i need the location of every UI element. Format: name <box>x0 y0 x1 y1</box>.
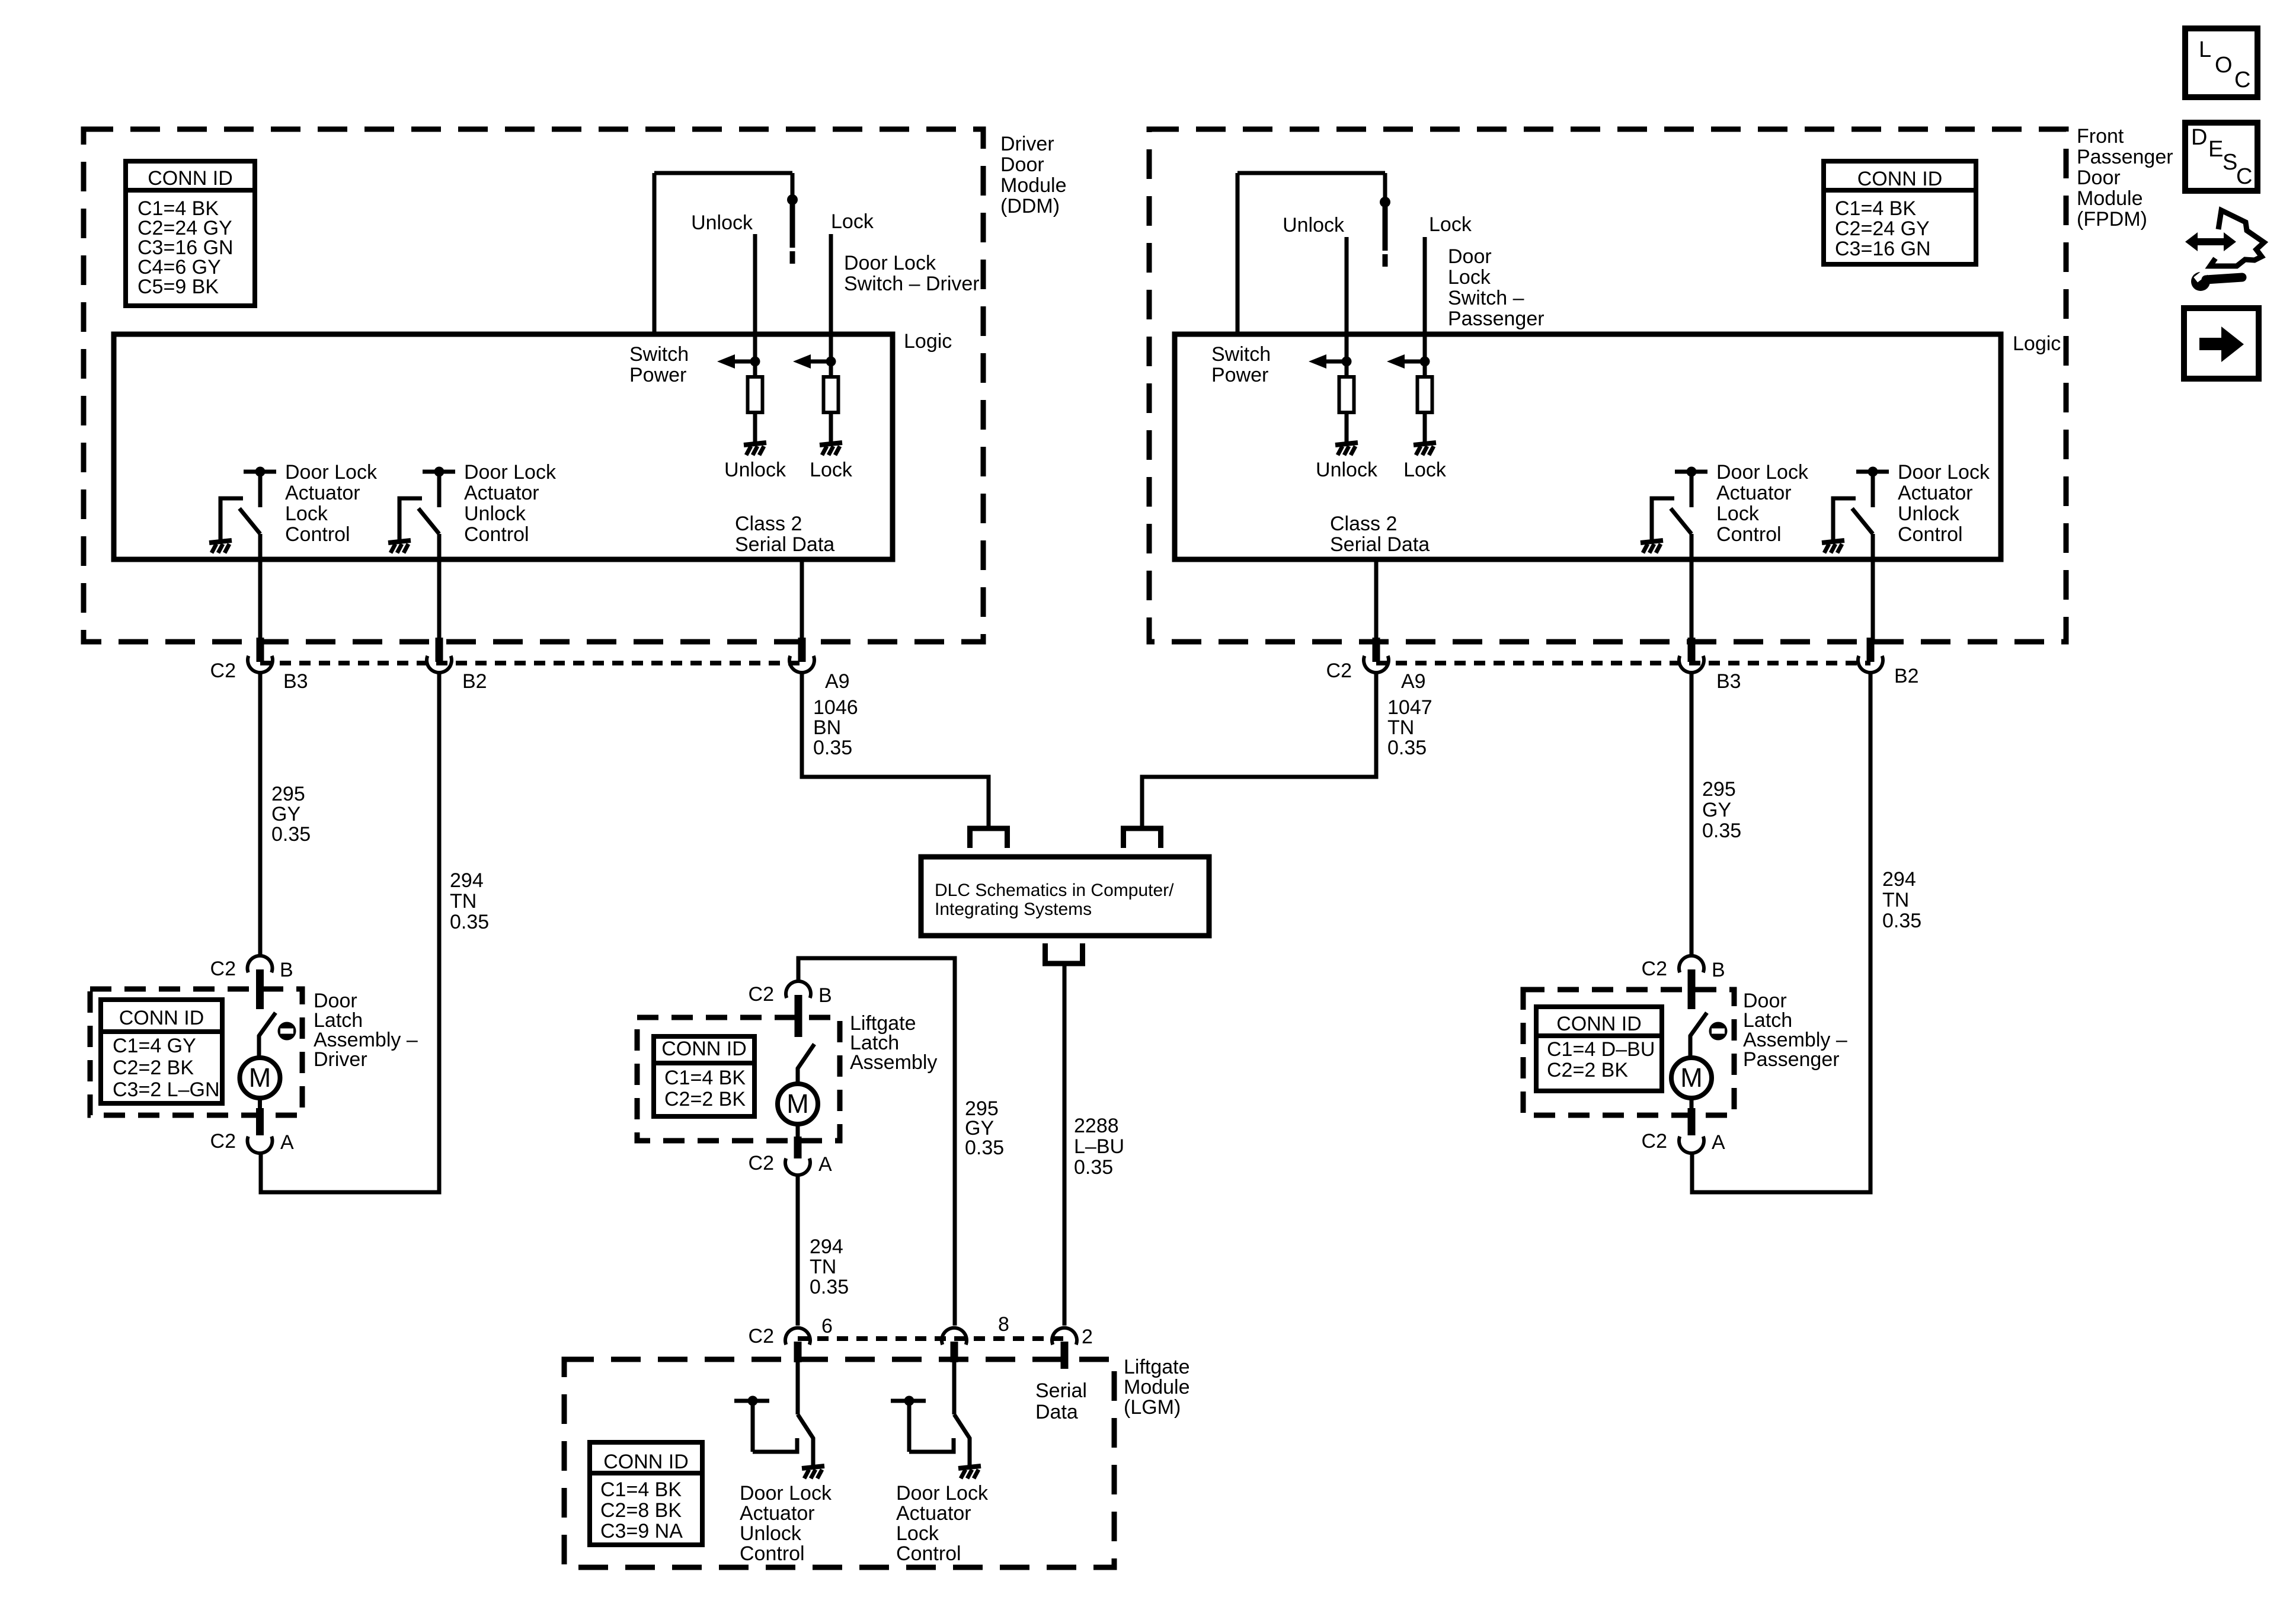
wire 1047 TN (FPDM A9 to DLC) <box>1142 673 1376 828</box>
arrow switch power lock (FPDM) <box>1387 354 1430 369</box>
label DLC Schematics in Computer/Integrating Systems <box>935 881 1174 919</box>
svg-text:CONN ID: CONN ID <box>603 1451 689 1473</box>
pin A9 (FPDM C2) <box>1373 638 1380 662</box>
module box Door Latch Assembly - Driver <box>90 989 302 1115</box>
icon wrench/diagnostic <box>2185 210 2264 291</box>
svg-text:C2: C2 <box>749 983 774 1006</box>
svg-text:Control: Control <box>464 523 529 546</box>
label wire 294 TN 0.35 (passenger) <box>1882 868 1921 932</box>
pin B2 (DDM C2) <box>436 638 443 662</box>
svg-text:E: E <box>2208 137 2223 162</box>
svg-text:D: D <box>2191 125 2207 150</box>
svg-text:Actuator: Actuator <box>1716 482 1792 504</box>
wire 2288 L-BU (DLC to LGM pin 2) <box>1063 966 1067 1326</box>
svg-text:TN: TN <box>1387 716 1414 739</box>
svg-text:Control: Control <box>1898 523 1963 546</box>
svg-text:A: A <box>1712 1131 1725 1154</box>
svg-text:B: B <box>818 984 832 1007</box>
switch blade (driver latch) <box>259 1013 276 1059</box>
svg-text:Power: Power <box>1211 364 1268 386</box>
svg-text:CONN ID: CONN ID <box>661 1038 747 1060</box>
connector cup B2 (FPDM C2) <box>1858 656 1883 673</box>
svg-text:B3: B3 <box>283 670 308 693</box>
svg-text:GY: GY <box>1702 799 1731 821</box>
svg-text:(DDM): (DDM) <box>1000 195 1060 217</box>
svg-text:Door Lock: Door Lock <box>464 461 557 484</box>
svg-text:Unlock: Unlock <box>740 1522 802 1545</box>
label Switch Power (FPDM) <box>1211 343 1271 386</box>
svg-text:C2: C2 <box>1642 958 1667 980</box>
connector C2 B (driver latch) <box>248 956 273 972</box>
connector cup A9 (FPDM C2) <box>1364 656 1389 673</box>
svg-text:0.35: 0.35 <box>271 823 311 846</box>
label wire 294 TN 0.35 (driver) <box>450 869 489 933</box>
svg-text:B: B <box>280 959 293 981</box>
svg-text:Integrating Systems: Integrating Systems <box>935 900 1092 919</box>
svg-text:C5=9 BK: C5=9 BK <box>137 276 219 298</box>
svg-text:Serial Data: Serial Data <box>1330 533 1430 556</box>
svg-text:Lock: Lock <box>896 1522 939 1545</box>
label wire 2288 L-BU 0.35 <box>1074 1115 1124 1179</box>
resistor lock pull-down (FPDM) <box>1418 377 1432 412</box>
svg-text:C1=4 BK: C1=4 BK <box>664 1067 746 1089</box>
ground <box>388 540 411 553</box>
wire to unlock resistor (FPDM) <box>1345 361 1349 375</box>
logic box FPDM <box>1175 334 2001 559</box>
switch blade (passenger latch) <box>1690 1013 1707 1059</box>
svg-text:Actuator: Actuator <box>896 1502 971 1525</box>
svg-text:Lock: Lock <box>1403 459 1447 481</box>
wire motor to pin (passenger latch) <box>1690 1098 1694 1109</box>
label Liftgate Module (LGM) <box>1124 1356 1190 1419</box>
svg-text:Lock: Lock <box>1448 266 1491 289</box>
label Class 2 Serial Data (DDM) <box>735 513 834 556</box>
wire class 2 serial data (DDM) <box>800 559 804 641</box>
svg-text:DLC Schematics in Computer/: DLC Schematics in Computer/ <box>935 881 1174 900</box>
wire lock resistor to ground (DDM) <box>829 414 833 444</box>
svg-text:294: 294 <box>810 1235 843 1258</box>
label Liftgate Latch Assembly <box>850 1012 937 1074</box>
svg-text:S: S <box>2223 150 2237 175</box>
switch Door Lock Actuator Unlock Control (DDM) <box>399 467 455 642</box>
connector cup pin 6 (LGM C2) <box>785 1328 810 1345</box>
connector C2 B (passenger latch) <box>1679 956 1704 972</box>
svg-text:Lock: Lock <box>831 210 874 233</box>
svg-text:C2: C2 <box>210 958 236 980</box>
pin A9 (DDM C2) <box>798 638 806 662</box>
svg-text:B3: B3 <box>1716 670 1741 693</box>
svg-text:B2: B2 <box>1894 665 1919 687</box>
label Driver Door Module (DDM) <box>1000 133 1067 217</box>
svg-text:Liftgate: Liftgate <box>1124 1356 1190 1378</box>
svg-text:A: A <box>818 1153 832 1176</box>
wire unlock throw into logic (DDM) <box>753 234 757 361</box>
module box Door Latch Assembly - Passenger <box>1523 990 1734 1115</box>
connector cup B2 (DDM C2) <box>427 656 452 673</box>
logic box DDM <box>114 334 893 559</box>
svg-text:C3=9 NA: C3=9 NA <box>600 1520 683 1542</box>
svg-text:0.35: 0.35 <box>1882 910 1921 932</box>
svg-text:Serial: Serial <box>1035 1379 1087 1402</box>
svg-text:Switch –: Switch – <box>1448 287 1524 309</box>
CONN ID table FPDM <box>1824 161 1976 264</box>
svg-text:6: 6 <box>821 1315 833 1337</box>
pin B3 (DDM C2) <box>257 638 264 662</box>
svg-text:Unlock: Unlock <box>691 212 753 234</box>
switch pivot Door Lock Switch - Driver <box>787 194 798 205</box>
svg-text:A: A <box>280 1131 294 1154</box>
svg-text:C2: C2 <box>1326 660 1352 682</box>
ground lock (DDM) <box>820 443 842 455</box>
ground unlock (DDM) <box>744 443 766 455</box>
pin B2 (FPDM C2) <box>1867 638 1875 662</box>
svg-text:0.35: 0.35 <box>450 911 489 933</box>
svg-text:2: 2 <box>1082 1326 1093 1348</box>
wire switch power riser (FPDM) <box>1236 173 1240 334</box>
label wire 1047 TN 0.35 <box>1387 696 1432 759</box>
module box FPDM (Front Passenger Door Module) <box>1149 129 2066 642</box>
wire to lock resistor (DDM) <box>829 361 833 375</box>
module box Liftgate Latch Assembly <box>637 1017 840 1141</box>
svg-text:0.35: 0.35 <box>965 1137 1004 1159</box>
motor M (driver latch) <box>240 1058 280 1098</box>
svg-text:1047: 1047 <box>1387 696 1432 719</box>
contact minus (passenger latch) <box>1709 1022 1728 1041</box>
motor M (liftgate latch) <box>778 1084 818 1124</box>
svg-text:1046: 1046 <box>813 696 858 719</box>
label wire 1046 BN 0.35 <box>813 696 858 759</box>
svg-text:B: B <box>1712 959 1725 981</box>
svg-text:Unlock: Unlock <box>1283 214 1345 236</box>
motor M (passenger latch) <box>1671 1058 1712 1098</box>
wire 294 TN driver (B2 to latch A) <box>261 673 439 1192</box>
icon box LOC <box>2185 28 2257 97</box>
svg-text:GY: GY <box>271 803 300 825</box>
svg-text:Logic: Logic <box>904 330 952 353</box>
wire 1046 BN (DDM A9 to DLC) <box>802 673 989 828</box>
svg-text:Driver: Driver <box>314 1048 367 1071</box>
svg-text:Lock: Lock <box>1716 502 1760 525</box>
wire switch feed top (FPDM) <box>1237 171 1385 175</box>
pin B3 (FPDM C2) <box>1688 638 1696 662</box>
svg-text:CONN ID: CONN ID <box>1556 1013 1642 1035</box>
svg-text:C2: C2 <box>1642 1130 1667 1153</box>
svg-text:Data: Data <box>1035 1401 1078 1423</box>
svg-text:TN: TN <box>810 1256 836 1278</box>
label Serial Data (LGM) <box>1035 1379 1087 1423</box>
svg-text:(LGM): (LGM) <box>1124 1396 1181 1419</box>
connector dashed link C2 (FPDM) <box>1376 661 1870 665</box>
svg-text:Door Lock: Door Lock <box>1716 461 1809 484</box>
svg-text:C2=2 BK: C2=2 BK <box>664 1088 746 1110</box>
svg-text:C3=2 L–GN: C3=2 L–GN <box>113 1078 220 1101</box>
svg-text:C2: C2 <box>749 1325 774 1347</box>
icon box DESC <box>2185 123 2257 191</box>
svg-text:L–BU: L–BU <box>1074 1135 1124 1158</box>
CONN ID table passenger latch <box>1536 1007 1662 1091</box>
svg-text:Unlock: Unlock <box>1316 459 1378 481</box>
wire lock throw into logic (DDM) <box>829 234 833 361</box>
svg-text:Lock: Lock <box>285 502 328 525</box>
svg-text:Actuator: Actuator <box>285 482 360 504</box>
pin A (driver latch) <box>256 1108 264 1135</box>
box DLC Schematics <box>921 857 1209 936</box>
svg-text:Unlock: Unlock <box>1898 502 1960 525</box>
svg-text:C2: C2 <box>210 1130 236 1153</box>
connector cup A (passenger latch) <box>1679 1137 1704 1153</box>
svg-text:C: C <box>2236 164 2252 189</box>
label Door Lock Switch - Passenger <box>1448 245 1544 330</box>
svg-text:Door Lock: Door Lock <box>896 1482 989 1505</box>
switch pivot Door Lock Switch - Passenger <box>1380 197 1390 207</box>
svg-text:Assembly: Assembly <box>850 1051 937 1074</box>
label Door Lock Switch - Driver <box>844 252 980 295</box>
svg-text:8: 8 <box>998 1313 1009 1336</box>
CONN ID table liftgate latch <box>654 1036 754 1116</box>
resistor unlock pull-down (DDM) <box>748 377 763 412</box>
svg-text:Serial Data: Serial Data <box>735 533 834 556</box>
svg-text:Class 2: Class 2 <box>735 513 802 535</box>
ground unlock (FPDM) <box>1335 443 1358 455</box>
off-page connector fork (1046 BN) <box>970 828 1008 848</box>
wire lock throw into logic (FPDM) <box>1423 237 1427 361</box>
switch Door Lock Actuator Unlock Control (FPDM) <box>1833 467 1889 642</box>
wire 295 GY liftgate (latch B to LGM pin 8) <box>798 958 955 1326</box>
svg-text:Power: Power <box>629 364 686 386</box>
svg-text:TN: TN <box>1882 889 1909 911</box>
svg-text:0.35: 0.35 <box>810 1276 849 1298</box>
svg-text:B2: B2 <box>462 670 487 693</box>
switch blade Door Lock Switch - Driver <box>790 204 795 248</box>
wire motor to pin (driver latch) <box>258 1098 262 1109</box>
ground <box>802 1466 824 1478</box>
label Front Passenger Door Module (FPDM) <box>2077 125 2173 231</box>
arrow switch power unlock (FPDM) <box>1309 354 1352 369</box>
svg-text:0.35: 0.35 <box>1074 1156 1113 1179</box>
off-page connector fork (1047 TN) <box>1124 828 1161 848</box>
wire 294 TN passenger (B2 to latch A) <box>1692 673 1870 1192</box>
switch blade (liftgate latch) <box>798 1044 814 1085</box>
switch Door Lock Actuator Lock Control (DDM) <box>220 467 276 642</box>
wire pivot stub (FPDM) <box>1383 173 1387 207</box>
ground lock (FPDM) <box>1414 443 1436 455</box>
svg-text:0.35: 0.35 <box>813 737 852 759</box>
svg-text:CONN ID: CONN ID <box>1857 168 1943 190</box>
wire to unlock resistor (DDM) <box>753 361 757 375</box>
wire 294 TN liftgate (latch A to LGM pin 6) <box>796 1176 800 1326</box>
connector cup pin 8 (LGM) <box>942 1328 967 1345</box>
svg-text:C1=4 BK: C1=4 BK <box>1835 197 1916 220</box>
svg-text:Module: Module <box>1124 1376 1190 1398</box>
wire unlock resistor to ground (FPDM) <box>1345 414 1349 444</box>
CONN ID table LGM <box>590 1442 702 1545</box>
svg-text:Door: Door <box>1448 245 1492 268</box>
svg-text:Module: Module <box>1000 174 1067 197</box>
svg-text:C3=16 GN: C3=16 GN <box>1835 238 1931 260</box>
wire 295 GY driver (B3 to latch B) <box>258 673 263 955</box>
wire class 2 serial data (FPDM) <box>1374 559 1379 641</box>
wire to lock resistor (FPDM) <box>1423 361 1427 375</box>
svg-text:Switch: Switch <box>629 343 689 366</box>
svg-text:C: C <box>2234 68 2250 92</box>
contact minus (driver latch) <box>278 1022 296 1041</box>
svg-text:C1=4 BK: C1=4 BK <box>600 1478 682 1501</box>
label wire 294 TN 0.35 (liftgate) <box>810 1235 849 1298</box>
svg-text:CONN ID: CONN ID <box>148 167 233 190</box>
svg-text:Control: Control <box>285 523 350 546</box>
svg-text:C1=4 D–BU: C1=4 D–BU <box>1547 1038 1655 1061</box>
svg-text:Door: Door <box>2077 167 2121 189</box>
off-page connector fork (2288 L-BU) <box>1045 943 1083 964</box>
svg-text:Lock: Lock <box>1429 213 1472 236</box>
svg-text:Lock: Lock <box>810 459 853 481</box>
resistor unlock pull-down (FPDM) <box>1339 377 1354 412</box>
svg-text:Unlock: Unlock <box>724 459 786 481</box>
svg-text:C2=8 BK: C2=8 BK <box>600 1499 682 1522</box>
label wire 295 GY 0.35 (liftgate) <box>965 1097 1004 1159</box>
svg-text:294: 294 <box>1882 868 1916 891</box>
connector dashed link C2 (LGM) <box>798 1336 1064 1341</box>
svg-text:0.35: 0.35 <box>1387 737 1427 759</box>
connector C2 B (liftgate latch) <box>786 981 811 998</box>
svg-text:C2=24 GY: C2=24 GY <box>1835 217 1930 240</box>
wire motor to pin (liftgate latch) <box>796 1124 800 1138</box>
svg-text:Class 2: Class 2 <box>1330 513 1397 535</box>
svg-text:Switch – Driver: Switch – Driver <box>844 273 980 295</box>
svg-text:Door Lock: Door Lock <box>740 1482 832 1505</box>
connector dashed link C2 (DDM) <box>260 661 802 665</box>
svg-text:A9: A9 <box>825 670 850 693</box>
svg-text:295: 295 <box>1702 778 1736 801</box>
svg-text:O: O <box>2215 53 2233 78</box>
icon box arrow <box>2184 308 2259 379</box>
pin A (passenger latch) <box>1688 1108 1696 1135</box>
switch Door Lock Actuator Unlock Control (LGM) <box>734 1362 813 1467</box>
svg-text:0.35: 0.35 <box>1702 820 1741 842</box>
switch Door Lock Actuator Lock Control (FPDM) <box>1652 467 1707 642</box>
arrow switch power unlock (DDM) <box>717 354 760 369</box>
wire 295 GY passenger (B3 to latch B) <box>1690 673 1694 955</box>
label Door Latch Assembly - Driver <box>314 990 418 1071</box>
svg-text:L: L <box>2199 37 2211 62</box>
svg-text:Passenger: Passenger <box>1743 1048 1840 1071</box>
wire unlock throw into logic (FPDM) <box>1345 237 1349 361</box>
label wire 295 GY 0.35 (driver) <box>271 783 311 846</box>
svg-text:C2: C2 <box>210 660 236 682</box>
module box Liftgate Module (LGM) <box>564 1359 1114 1567</box>
connector cup B3 (FPDM C2) <box>1679 656 1704 673</box>
svg-text:Door Lock: Door Lock <box>844 252 936 274</box>
svg-text:Passenger: Passenger <box>1448 308 1544 330</box>
label wire 295 GY 0.35 (passenger) <box>1702 778 1741 842</box>
svg-text:BN: BN <box>813 716 841 739</box>
svg-text:Actuator: Actuator <box>464 482 539 504</box>
wire lock resistor to ground (FPDM) <box>1423 414 1427 444</box>
svg-text:Door Lock: Door Lock <box>285 461 378 484</box>
svg-text:Control: Control <box>740 1542 805 1565</box>
svg-text:M: M <box>786 1089 809 1119</box>
svg-text:Driver: Driver <box>1000 133 1054 155</box>
connector cup B3 (DDM C2) <box>248 656 273 673</box>
svg-text:Front: Front <box>2077 125 2124 148</box>
svg-text:C2=2 BK: C2=2 BK <box>113 1057 194 1079</box>
wire switch power riser (DDM) <box>653 173 657 334</box>
svg-text:A9: A9 <box>1401 670 1426 693</box>
connector cup A9 (DDM C2) <box>789 656 814 673</box>
svg-text:294: 294 <box>450 869 484 892</box>
svg-text:Actuator: Actuator <box>1898 482 1973 504</box>
connector cup pin 2 (LGM) <box>1052 1328 1077 1345</box>
svg-text:CONN ID: CONN ID <box>119 1007 204 1029</box>
label Switch Power (DDM) <box>629 343 689 386</box>
svg-text:Actuator: Actuator <box>740 1502 815 1525</box>
wire switch feed top (DDM) <box>654 171 792 175</box>
svg-text:Control: Control <box>1716 523 1782 546</box>
svg-text:Door: Door <box>1000 153 1044 176</box>
wire pivot stub (DDM) <box>791 173 795 204</box>
svg-text:M: M <box>1680 1062 1703 1093</box>
svg-text:Module: Module <box>2077 187 2143 210</box>
svg-text:Door Lock: Door Lock <box>1898 461 1990 484</box>
svg-text:Unlock: Unlock <box>464 502 526 525</box>
arrow switch power lock (DDM) <box>793 354 836 369</box>
CONN ID table driver latch <box>101 1000 222 1103</box>
svg-text:Control: Control <box>896 1542 961 1565</box>
switch blade Door Lock Switch - Passenger <box>1383 207 1388 251</box>
svg-text:TN: TN <box>450 890 477 913</box>
wire unlock resistor to ground (DDM) <box>753 414 757 444</box>
connector cup A (liftgate latch) <box>785 1158 810 1175</box>
ground <box>209 540 232 553</box>
ground <box>1822 540 1844 553</box>
ground <box>958 1466 981 1478</box>
resistor lock pull-down (DDM) <box>824 377 839 412</box>
svg-text:M: M <box>249 1062 271 1093</box>
module box DDM (Driver Door Module) <box>84 129 983 642</box>
svg-text:295: 295 <box>271 783 305 805</box>
svg-text:2288: 2288 <box>1074 1115 1119 1137</box>
switch Door Lock Actuator Lock Control (LGM) <box>891 1362 970 1467</box>
label Class 2 Serial Data (FPDM) <box>1330 513 1430 556</box>
svg-text:Passenger: Passenger <box>2077 146 2173 168</box>
connector cup A (driver latch) <box>248 1137 273 1153</box>
ground <box>1641 540 1663 553</box>
svg-text:C2=2 BK: C2=2 BK <box>1547 1059 1628 1081</box>
svg-text:(FPDM): (FPDM) <box>2077 208 2147 231</box>
svg-text:C2: C2 <box>749 1152 774 1174</box>
svg-text:Switch: Switch <box>1211 343 1271 366</box>
label Door Latch Assembly - Passenger <box>1743 990 1847 1071</box>
svg-text:Logic: Logic <box>2013 332 2061 355</box>
pin A (liftgate latch) <box>794 1137 802 1158</box>
CONN ID table DDM <box>126 161 255 306</box>
svg-text:C1=4 GY: C1=4 GY <box>113 1035 196 1057</box>
